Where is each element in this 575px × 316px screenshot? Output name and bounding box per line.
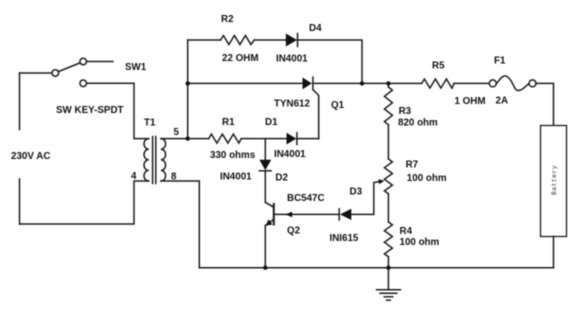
wire Q2 emitter down [264, 225, 266, 267]
wire primary loop bottom [20, 181, 149, 224]
wire D4 to corner and down [297, 40, 362, 83]
wire D3 to R7 wiper [351, 181, 382, 214]
svg-text:5: 5 [174, 127, 180, 138]
svg-text:TYN612: TYN612 [274, 98, 310, 109]
svg-text:R5: R5 [432, 61, 445, 72]
svg-text:INI615: INI615 [330, 233, 359, 244]
svg-text:1 OHM: 1 OHM [455, 96, 486, 107]
wire R1 to D1 [241, 138, 286, 140]
wire main rail to SCR anode [188, 82, 303, 84]
svg-text:D1: D1 [265, 117, 278, 128]
switch SW1 lever [58, 63, 80, 72]
resistor R5 [422, 79, 455, 88]
fuse F1 [489, 80, 496, 87]
svg-text:BC547C: BC547C [287, 193, 325, 204]
transistor Q2 [265, 202, 273, 207]
svg-text:D3: D3 [350, 187, 363, 198]
wire switch throw to primary top [87, 83, 149, 138]
node dot ground [386, 266, 390, 270]
wire R5 to fuse [454, 82, 489, 84]
wire upper throw stub [87, 61, 113, 63]
svg-text:Q2: Q2 [287, 226, 301, 237]
svg-text:SW KEY-SPDT: SW KEY-SPDT [56, 105, 124, 116]
svg-text:820 ohm: 820 ohm [398, 118, 438, 129]
svg-text:R7: R7 [406, 160, 419, 171]
wire source top segment [19, 73, 21, 130]
svg-text:T1: T1 [144, 118, 156, 129]
svg-text:100 ohm: 100 ohm [400, 237, 440, 248]
diode D3 [338, 209, 340, 220]
diode D4 [286, 34, 297, 47]
SCR Q1 [303, 78, 312, 90]
wire R7 to R4 [387, 194, 389, 222]
wire battery bottom [553, 237, 555, 268]
switch SW1 lower throw contact [80, 80, 87, 87]
svg-text:R2: R2 [221, 14, 234, 25]
switch SW1 upper throw contact [80, 58, 87, 65]
transformer T1 core [152, 137, 154, 184]
node dot R3 top [386, 81, 390, 85]
svg-text:D2: D2 [275, 173, 288, 184]
svg-text:R4: R4 [400, 226, 413, 237]
svg-text:4: 4 [131, 171, 137, 182]
wire main rail SCR to R5 [313, 82, 422, 84]
diode D1 [287, 133, 297, 145]
wire Q1 gate [313, 90, 319, 139]
wire node to R3 [387, 83, 389, 87]
svg-text:22 OHM: 22 OHM [222, 53, 258, 64]
resistor R3 [384, 87, 392, 125]
wire switch feed horizontal [20, 72, 52, 74]
svg-text:R3: R3 [399, 106, 412, 117]
resistor R2 [221, 36, 255, 45]
wire fuse to battery top [536, 83, 554, 125]
potentiometer R7 [384, 159, 392, 194]
svg-text:SW1: SW1 [125, 62, 147, 73]
svg-text:330 ohms: 330 ohms [210, 150, 256, 161]
wire source bottom segment [19, 179, 21, 224]
wire R4 to bottom rail [387, 257, 389, 268]
svg-text:D4: D4 [309, 23, 322, 34]
node dot D4 drop [360, 81, 364, 85]
resistor R1 [209, 134, 242, 143]
R7 wiper arrowhead [378, 179, 384, 184]
node dot emitter bottom [263, 266, 267, 270]
wire pin5 rail to R1 [188, 138, 209, 140]
svg-text:IN4001: IN4001 [276, 54, 308, 65]
wire Q2 base to D3 [275, 213, 339, 215]
wire R3 to R7 [387, 125, 389, 159]
svg-text:2A: 2A [496, 96, 509, 107]
wire top rail left [188, 39, 221, 41]
wire pin 8 down to bottom rail [161, 181, 199, 268]
base wire arrow [285, 212, 292, 218]
wire D2 branch [264, 139, 266, 160]
wire D1 cathode to gate corner [297, 138, 319, 140]
svg-text:R1: R1 [222, 117, 235, 128]
ground [387, 268, 389, 290]
switch SW1 pole contact [52, 70, 59, 77]
svg-text:Battery: Battery [551, 165, 558, 195]
svg-text:100 ohm: 100 ohm [407, 173, 447, 184]
node dot pin5 [186, 136, 190, 140]
transformer T1 secondary coil [161, 139, 166, 181]
resistor R4 [384, 222, 392, 257]
wire pin 5 to node [161, 138, 188, 140]
wire left riser [187, 40, 189, 139]
svg-text:F1: F1 [494, 56, 506, 67]
svg-text:IN4001: IN4001 [220, 172, 252, 183]
svg-text:IN4001: IN4001 [274, 149, 306, 160]
battery [541, 126, 567, 237]
wire R2 to D4 [254, 39, 286, 41]
node dot left riser rail [186, 81, 190, 85]
diode D2 [259, 160, 271, 170]
svg-text:Q1: Q1 [331, 100, 345, 111]
transformer T1 primary coil [144, 139, 149, 181]
svg-text:8: 8 [171, 172, 177, 183]
wire D2 to Q2 collector [264, 171, 266, 203]
svg-text:230V AC: 230V AC [11, 151, 50, 162]
wire bottom rail [199, 267, 553, 269]
